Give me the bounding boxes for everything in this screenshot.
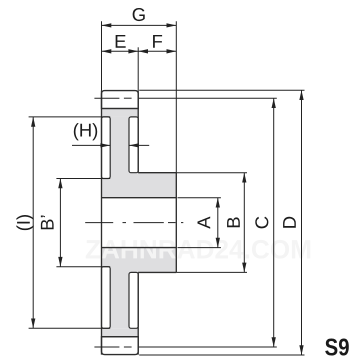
gear outline - right rim edge lower <box>137 272 139 354</box>
dimension (I) <box>32 117 34 328</box>
extension lines A <box>178 197 221 199</box>
extension lines D <box>139 89 304 91</box>
label D <box>283 217 296 228</box>
top tooth cap <box>102 91 139 109</box>
root line top <box>102 108 139 110</box>
bore top line <box>102 197 177 199</box>
wire - lower-right relief slot <box>129 272 138 328</box>
dimension B' <box>59 179 61 267</box>
label F <box>153 35 162 48</box>
gear outline - right rim edge upper <box>137 91 139 173</box>
label B <box>227 217 240 227</box>
extension line G left <box>101 21 103 90</box>
extension lines B <box>176 172 247 174</box>
gear body section fill (gray) <box>102 109 177 337</box>
hub right edge <box>175 173 177 273</box>
extension lines B' <box>56 178 110 180</box>
label B' <box>41 216 54 230</box>
wire - upper-left relief slot <box>102 117 111 179</box>
root line bottom <box>102 336 139 338</box>
bottom tooth cap <box>102 337 139 355</box>
dimension B <box>243 173 245 273</box>
wire - lower-left relief slot <box>102 267 111 329</box>
label A <box>197 216 210 228</box>
wire - upper-right relief slot <box>129 117 138 173</box>
label (H) <box>74 123 97 140</box>
hub top line <box>138 172 176 174</box>
pitch line bottom extension to C <box>139 346 277 348</box>
dimension G <box>102 24 177 26</box>
extension line E-F divider <box>137 47 139 90</box>
dimension F <box>138 50 176 52</box>
bore bottom line <box>102 247 177 249</box>
label (I) <box>16 215 33 230</box>
extension line G right / hub <box>175 21 177 172</box>
dimension (H) arrows <box>72 144 110 146</box>
dimension E <box>102 50 139 52</box>
label E <box>116 35 126 48</box>
axis centerline (dash-dot) <box>85 222 113 224</box>
hub bottom line <box>138 271 176 273</box>
label C <box>255 217 268 229</box>
gear outline - left edge <box>101 91 103 355</box>
label S9 <box>325 339 349 356</box>
watermark ZAHNRAD24.COM <box>86 240 310 259</box>
pitch line top (dash-dot) <box>94 97 119 99</box>
label G <box>133 8 145 21</box>
extension lines (I) <box>29 116 111 118</box>
pitch line bottom (dash-dot) <box>94 346 119 348</box>
dimension C <box>273 98 275 347</box>
dimension D <box>301 90 303 355</box>
dimension A <box>217 198 219 248</box>
pitch line top extension to C <box>139 97 277 99</box>
